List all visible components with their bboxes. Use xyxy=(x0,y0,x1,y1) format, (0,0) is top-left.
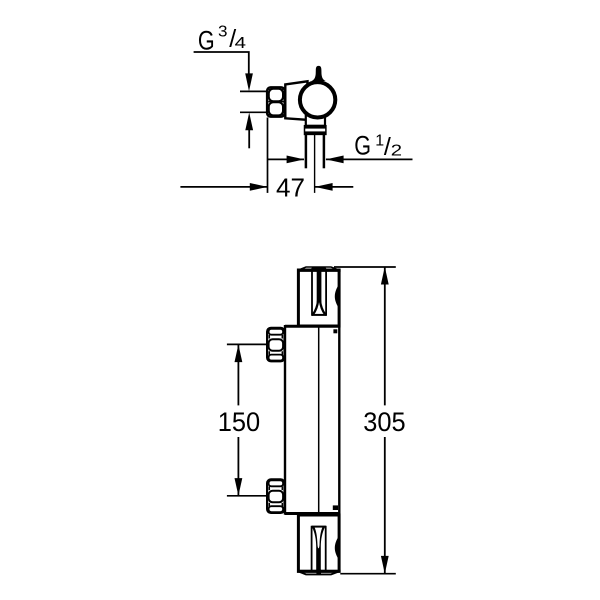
svg-text:305: 305 xyxy=(363,407,405,437)
svg-text:G: G xyxy=(354,131,371,161)
svg-text:3: 3 xyxy=(218,24,228,41)
svg-text:G: G xyxy=(198,25,215,55)
svg-text:4: 4 xyxy=(235,35,247,52)
svg-text:47: 47 xyxy=(276,175,305,203)
svg-text:150: 150 xyxy=(218,407,260,437)
svg-text:2: 2 xyxy=(391,143,402,160)
svg-text:1: 1 xyxy=(375,132,384,149)
